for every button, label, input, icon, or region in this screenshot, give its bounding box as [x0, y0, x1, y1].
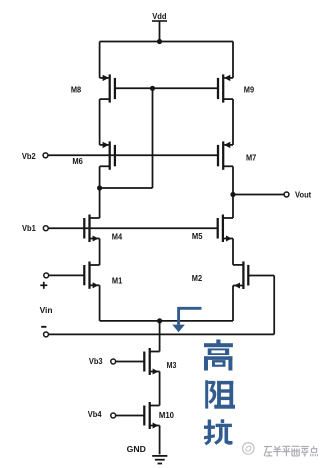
svg-text:M6: M6: [72, 156, 83, 166]
svg-text:Vdd: Vdd: [152, 11, 166, 21]
svg-text:M5: M5: [192, 231, 203, 241]
svg-text:M4: M4: [112, 232, 123, 242]
svg-text:M8: M8: [71, 85, 81, 95]
svg-text:M10: M10: [159, 410, 174, 420]
svg-text:Vin: Vin: [40, 305, 53, 315]
svg-text:M1: M1: [112, 275, 123, 285]
svg-text:Vb4: Vb4: [88, 409, 102, 419]
svg-text:Vout: Vout: [295, 190, 311, 200]
svg-text:Vb1: Vb1: [22, 223, 36, 233]
svg-text:Vb3: Vb3: [89, 356, 103, 366]
svg-text:M7: M7: [246, 152, 256, 162]
svg-text:Vb2: Vb2: [22, 151, 36, 161]
svg-text:M2: M2: [192, 273, 202, 283]
svg-text:M3: M3: [167, 360, 177, 370]
svg-text:M9: M9: [244, 85, 254, 95]
svg-text:GND: GND: [127, 444, 146, 454]
